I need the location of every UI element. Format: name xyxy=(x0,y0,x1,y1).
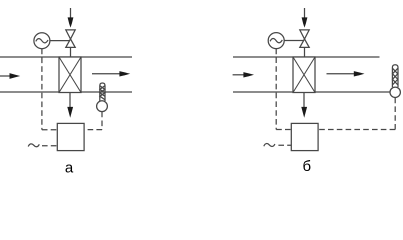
svg-text:б: б xyxy=(303,158,312,175)
svg-text:а: а xyxy=(65,160,74,177)
